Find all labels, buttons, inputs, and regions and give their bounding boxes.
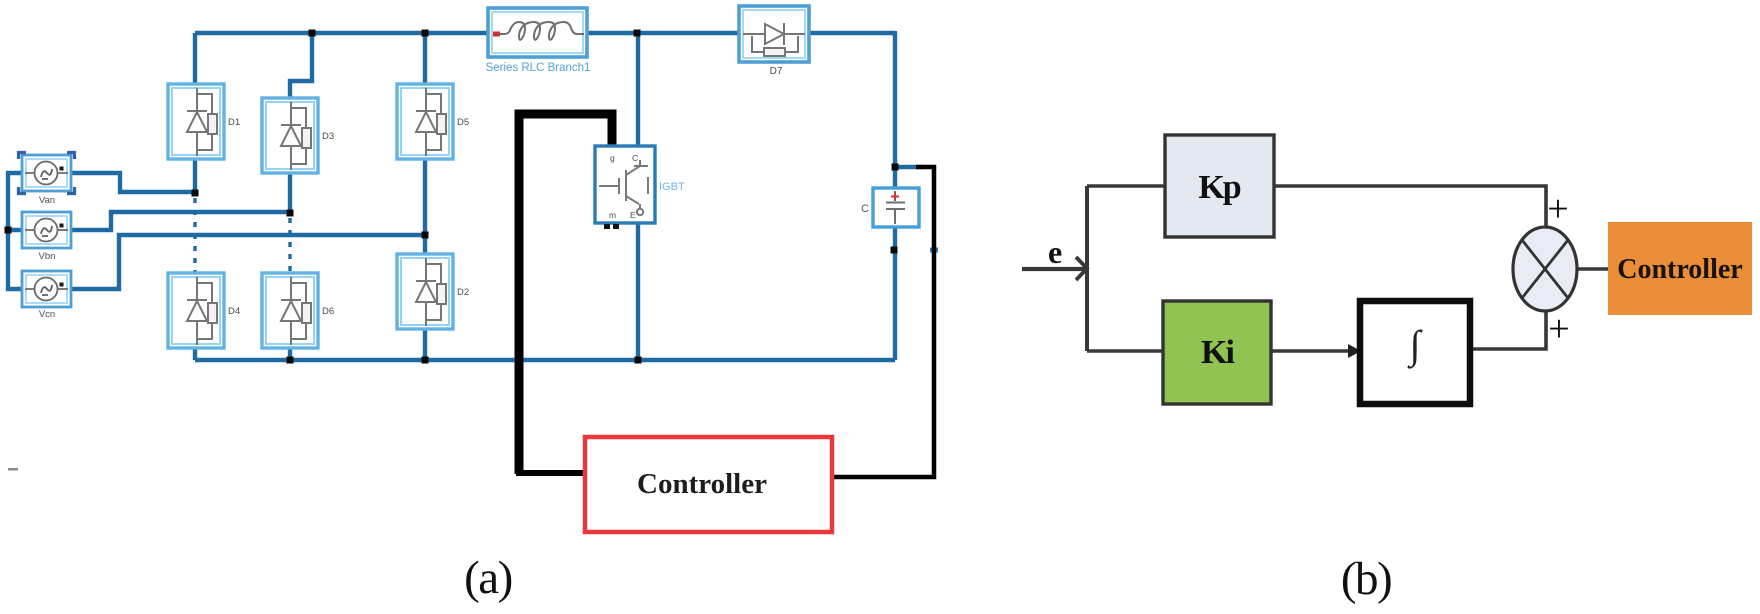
- svg-text:D4: D4: [228, 306, 240, 317]
- svg-text:e: e: [1048, 234, 1062, 270]
- svg-text:C: C: [632, 153, 638, 163]
- svg-text:+: +: [1548, 308, 1569, 350]
- svg-text:D2: D2: [457, 287, 469, 298]
- svg-text:Vbn: Vbn: [39, 251, 56, 262]
- svg-text:Ki: Ki: [1201, 334, 1234, 371]
- svg-text:D7: D7: [770, 66, 783, 77]
- svg-text:Series RLC Branch1: Series RLC Branch1: [486, 62, 591, 74]
- svg-text:D6: D6: [322, 306, 334, 317]
- svg-text:Controller: Controller: [637, 468, 767, 500]
- svg-text:m: m: [609, 210, 616, 220]
- svg-text:Controller: Controller: [1617, 254, 1742, 285]
- svg-text:+: +: [1547, 188, 1568, 230]
- svg-text:C: C: [861, 203, 869, 215]
- svg-text:IGBT: IGBT: [659, 181, 685, 193]
- svg-text:Kp: Kp: [1198, 169, 1240, 206]
- svg-text:D5: D5: [457, 117, 469, 128]
- svg-text:g: g: [610, 153, 615, 163]
- svg-text:D1: D1: [228, 117, 240, 128]
- svg-text:D3: D3: [322, 131, 334, 142]
- svg-text:Vcn: Vcn: [39, 309, 55, 320]
- svg-text:Van: Van: [39, 195, 55, 206]
- svg-text:(a): (a): [464, 552, 512, 604]
- svg-text:(b): (b): [1341, 553, 1391, 605]
- svg-text:E: E: [630, 210, 636, 220]
